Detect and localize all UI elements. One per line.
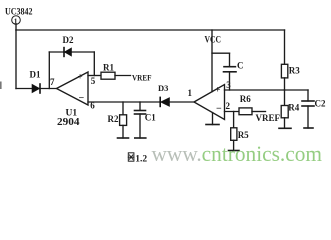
- capacitor C: [224, 66, 235, 68]
- svg-text:1: 1: [188, 88, 193, 98]
- svg-text:C2: C2: [315, 99, 326, 109]
- svg-text:+: +: [215, 85, 220, 95]
- wire top rail: [16, 29, 285, 31]
- ground under C2: [304, 127, 313, 129]
- ground under R5: [229, 150, 240, 152]
- svg-text:R2: R2: [108, 114, 119, 124]
- svg-text:+: +: [78, 72, 83, 82]
- svg-text:www.cntronics.com: www.cntronics.com: [152, 141, 323, 166]
- capacitor C1 lower lead: [139, 114, 141, 138]
- wire left rail: [15, 30, 17, 89]
- capacitor C upper lead: [229, 53, 231, 66]
- svg-text:D3: D3: [158, 83, 168, 93]
- wire stub from terminal: [15, 25, 17, 31]
- op-amp U1A triangle (points left): [57, 72, 89, 105]
- resistor R5: [231, 128, 237, 141]
- wire VCC rail drop: [211, 30, 213, 92]
- wire R6 to VREF: [252, 111, 266, 113]
- svg-text:R5: R5: [238, 130, 249, 140]
- svg-text:5: 5: [91, 76, 96, 86]
- capacitor C2 lower lead: [307, 106, 309, 128]
- svg-text:−: −: [216, 103, 222, 114]
- resistor R2: [120, 115, 127, 126]
- resistor R3: [281, 64, 287, 78]
- resistor R4 lower lead: [284, 118, 286, 129]
- svg-text:VCC: VCC: [205, 35, 222, 45]
- resistor R1: [101, 72, 115, 79]
- wire D2 feedback loop left edge: [48, 52, 50, 89]
- svg-text:R1: R1: [103, 63, 114, 73]
- wire left rail to D1: [16, 88, 32, 90]
- resistor R6: [239, 108, 252, 115]
- svg-text:7: 7: [50, 77, 55, 87]
- svg-text:VREF: VREF: [256, 113, 281, 123]
- resistor R4: [281, 106, 288, 118]
- ground under C1: [135, 137, 146, 139]
- stray scan mark left edge: [0, 82, 2, 90]
- svg-text:R6: R6: [240, 94, 251, 104]
- wire plus input to R1: [88, 75, 101, 77]
- svg-text:−: −: [79, 93, 85, 104]
- diode D2 (points left): [64, 48, 72, 57]
- svg-text:2: 2: [226, 101, 231, 111]
- wire pin3 rail to R4: [284, 90, 286, 106]
- wire D2 feedback loop top edge: [49, 51, 94, 53]
- resistor R5 lower lead: [233, 140, 235, 150]
- wire right rail down: [284, 30, 286, 64]
- capacitor C2 upper lead: [307, 90, 309, 101]
- pin terminal circled 1: [12, 16, 21, 25]
- wire R3 to pin3 rail: [284, 78, 286, 90]
- svg-text:R4: R4: [288, 103, 299, 113]
- op-amp U1B triangle (points left): [194, 85, 225, 120]
- ground under U1B: [206, 124, 219, 126]
- capacitor C lower lead: [229, 72, 231, 90]
- wire D1 to op-amp apex: [40, 88, 57, 90]
- capacitor C2: [302, 100, 314, 102]
- caption figure glyph: [128, 153, 134, 161]
- svg-text:1.2: 1.2: [135, 154, 147, 164]
- resistor R2 lead: [122, 102, 124, 115]
- wire pin6 bus to op-amp B: [88, 101, 160, 103]
- svg-text:D2: D2: [63, 35, 74, 45]
- svg-text:UC3842: UC3842: [5, 7, 33, 17]
- wire pin3 rail: [225, 89, 309, 91]
- svg-text:2904: 2904: [57, 117, 80, 128]
- svg-text:D1: D1: [30, 70, 41, 80]
- wire VCC branch to C: [212, 52, 230, 54]
- capacitor C1 lead: [139, 102, 141, 110]
- svg-text:VREF: VREF: [132, 73, 152, 83]
- ground under R4: [279, 127, 291, 129]
- svg-text:C: C: [237, 61, 244, 71]
- resistor R5 lead: [233, 112, 235, 128]
- wire D2 feedback loop right edge: [93, 52, 95, 76]
- resistor R2 lower lead: [122, 125, 124, 138]
- wire pin2 to R6: [225, 111, 240, 113]
- svg-text:R3: R3: [289, 66, 300, 76]
- svg-text:C1: C1: [145, 113, 156, 123]
- wire R1 to VREF: [115, 75, 131, 77]
- diode D1: [32, 84, 40, 93]
- op-amp U1B ground stub: [212, 113, 214, 125]
- diode D3 (points left): [160, 97, 169, 106]
- ground under R2: [118, 137, 129, 139]
- svg-text:3: 3: [226, 80, 231, 90]
- capacitor C1: [135, 110, 146, 112]
